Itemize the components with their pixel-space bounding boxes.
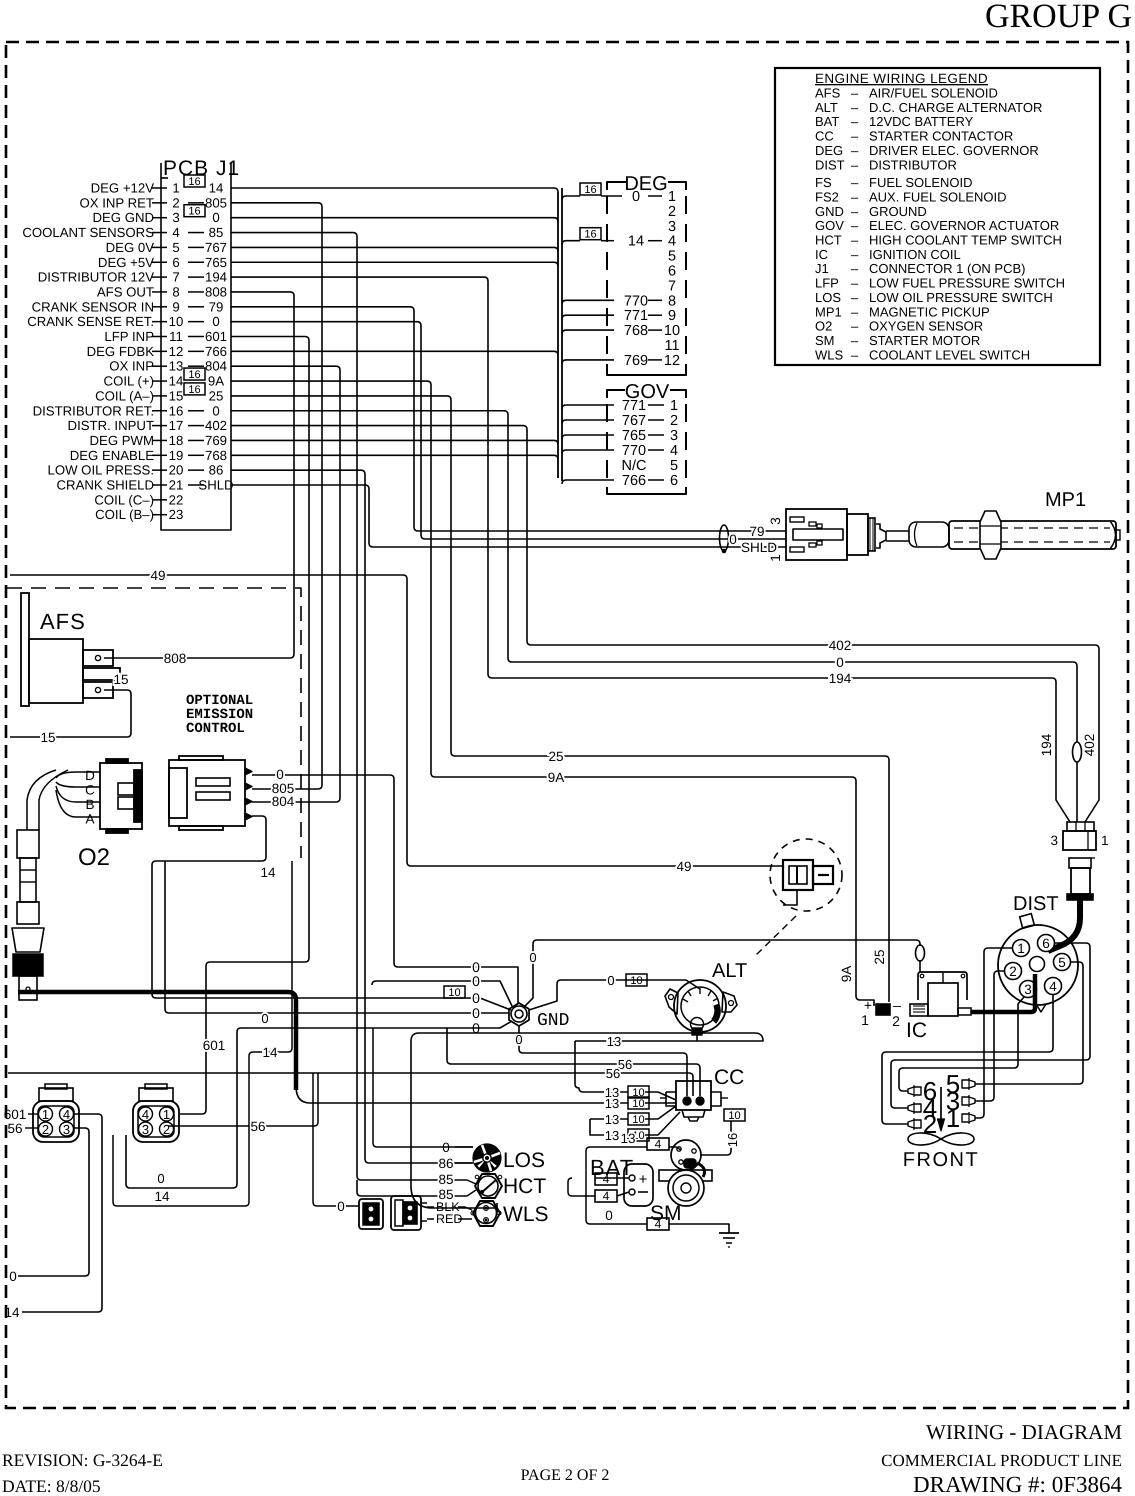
svg-text:0: 0 — [472, 973, 480, 989]
inline connector on 0 wire — [1073, 742, 1082, 762]
optional emission control dashed boundary — [7, 588, 301, 858]
IC left terminal — [910, 1004, 928, 1016]
DIST harness connector top — [1067, 822, 1094, 831]
svg-text:805: 805 — [205, 195, 227, 210]
wire dist pin3 loop — [899, 997, 1024, 1091]
svg-text:COOLANT LEVEL SWITCH: COOLANT LEVEL SWITCH — [869, 347, 1030, 362]
wire 0 J1 pin16 to DIST — [231, 411, 1077, 742]
svg-text:13: 13 — [605, 1128, 619, 1143]
svg-text:OXYGEN SENSOR: OXYGEN SENSOR — [869, 319, 983, 334]
wire trunk to GOV pin 3 — [562, 435, 614, 439]
svg-text:–: – — [851, 157, 859, 172]
wire 25 J1 pin15 to IC — [231, 396, 889, 1002]
svg-text:9A: 9A — [208, 374, 224, 389]
connector pigtail — [783, 890, 797, 905]
IC body — [928, 983, 958, 1016]
svg-text:REVISION: G-3264-E: REVISION: G-3264-E — [2, 1450, 163, 1470]
svg-text:AUX. FUEL SOLENOID: AUX. FUEL SOLENOID — [869, 189, 1007, 204]
svg-text:601: 601 — [205, 329, 227, 344]
svg-text:1: 1 — [1017, 941, 1025, 956]
svg-text:16: 16 — [188, 206, 200, 218]
O2 sensor hex — [12, 928, 44, 952]
svg-text:85: 85 — [209, 225, 224, 240]
legend box — [775, 68, 1100, 365]
svg-text:0: 0 — [529, 950, 536, 965]
svg-text:11: 11 — [169, 329, 183, 344]
svg-text:8: 8 — [668, 293, 676, 309]
svg-text:0: 0 — [836, 655, 844, 670]
wire 56 conn2 pin2 — [168, 1073, 318, 1126]
svg-text:768: 768 — [205, 448, 227, 463]
O2 pin bumps — [245, 768, 252, 775]
svg-text:O2: O2 — [815, 319, 832, 334]
svg-text:771: 771 — [624, 308, 648, 324]
svg-text:4: 4 — [1049, 979, 1057, 994]
svg-text:0: 0 — [632, 189, 640, 205]
MP1 connector details — [790, 517, 804, 522]
svg-text:86: 86 — [438, 1156, 453, 1171]
wire trunk to GOV pin 2 — [562, 420, 614, 424]
battery body — [624, 1164, 653, 1206]
wire J1 pin 1 to trunk — [231, 188, 558, 192]
svg-text:769: 769 — [624, 353, 648, 369]
wire 86 J1 pin20 to LOS — [231, 470, 473, 1163]
svg-text:COIL (+): COIL (+) — [104, 374, 154, 389]
svg-text:13: 13 — [605, 1112, 619, 1127]
svg-text:3: 3 — [172, 210, 179, 225]
wire 0 up from GND to IC — [524, 940, 920, 1007]
distributor terminal 2 — [1004, 963, 1021, 980]
svg-text:769: 769 — [205, 433, 227, 448]
svg-text:56: 56 — [7, 1121, 22, 1136]
svg-text:CC: CC — [815, 129, 834, 144]
svg-text:3: 3 — [668, 219, 676, 235]
svg-text:FS: FS — [815, 175, 832, 190]
svg-text:–: – — [851, 114, 859, 129]
svg-text:GROUND: GROUND — [869, 204, 927, 219]
svg-text:PCB J1: PCB J1 — [163, 157, 240, 180]
svg-text:DIST: DIST — [815, 157, 845, 172]
svg-text:LFP: LFP — [815, 276, 839, 291]
wire bus J1 to DEG/GOV (trunk) — [557, 192, 559, 478]
svg-text:FUEL SOLENOID: FUEL SOLENOID — [869, 175, 973, 190]
svg-text:49: 49 — [676, 859, 691, 874]
svg-text:0: 0 — [337, 1199, 345, 1214]
svg-text:9A: 9A — [548, 770, 565, 785]
distributor tab — [1020, 914, 1035, 929]
wire 13 row4 — [590, 1119, 628, 1135]
plug terminal 5 — [962, 1080, 975, 1088]
svg-text:4: 4 — [655, 1137, 662, 1151]
wire 14 loop conn1 pin4 — [22, 1114, 102, 1312]
svg-text:N/C: N/C — [622, 458, 647, 474]
starter motor mount bar — [659, 1170, 712, 1181]
svg-text:15: 15 — [113, 672, 128, 687]
svg-text:0: 0 — [212, 210, 219, 225]
svg-text:16: 16 — [188, 384, 200, 396]
svg-text:22: 22 — [169, 492, 184, 507]
IC HT lead to DIST — [971, 974, 1035, 1012]
svg-text:0: 0 — [261, 1011, 268, 1026]
IC right output — [958, 1008, 971, 1015]
wire 15 AFS — [10, 690, 131, 737]
O2 cable — [27, 770, 56, 830]
svg-text:DEG: DEG — [624, 173, 667, 195]
svg-text:808: 808 — [164, 651, 187, 666]
svg-text:13: 13 — [620, 1131, 635, 1146]
svg-text:OX INP: OX INP — [109, 359, 154, 374]
O2 sensor tip — [19, 976, 37, 1000]
svg-text:23: 23 — [169, 507, 184, 522]
svg-text:14: 14 — [169, 374, 184, 389]
svg-text:4: 4 — [603, 1189, 610, 1203]
svg-text:SHLD: SHLD — [741, 540, 777, 555]
wire trunk to GOV pin 4 — [562, 450, 614, 454]
svg-text:STARTER CONTACTOR: STARTER CONTACTOR — [869, 129, 1013, 144]
svg-text:AFS: AFS — [40, 609, 86, 634]
wire 16 to solenoid — [700, 1121, 731, 1155]
svg-text:DEG PWM: DEG PWM — [90, 433, 154, 448]
svg-text:5: 5 — [670, 458, 678, 474]
svg-text:9: 9 — [668, 308, 676, 324]
svg-text:10: 10 — [169, 314, 184, 329]
svg-text:16: 16 — [584, 184, 596, 196]
svg-text:WIRING - DIAGRAM: WIRING - DIAGRAM — [926, 1420, 1122, 1444]
svg-text:19: 19 — [169, 448, 184, 463]
svg-text:4: 4 — [670, 443, 678, 459]
svg-text:14: 14 — [209, 180, 224, 195]
wire 0 to GND via 85 branch — [372, 981, 512, 1006]
connector in dashed circle — [783, 860, 813, 890]
wire 0 left to GND (from conn2 area) — [126, 1021, 512, 1188]
svg-text:49: 49 — [150, 568, 165, 583]
svg-text:B: B — [85, 797, 94, 812]
svg-text:86: 86 — [209, 463, 224, 478]
wire 13 to solenoid — [590, 1146, 647, 1148]
svg-text:GND: GND — [815, 204, 844, 219]
svg-text:DEG FDBK: DEG FDBK — [87, 344, 155, 359]
svg-text:18: 18 — [169, 433, 184, 448]
wire trunk to DEG pin 10 — [562, 330, 614, 334]
svg-text:COIL (A–): COIL (A–) — [95, 388, 154, 403]
svg-text:5: 5 — [668, 249, 676, 265]
svg-text:25: 25 — [548, 749, 563, 764]
svg-text:766: 766 — [205, 344, 227, 359]
svg-text:16: 16 — [725, 1133, 740, 1147]
svg-text:–: – — [851, 100, 859, 115]
svg-text:4: 4 — [668, 234, 676, 250]
wire 0 to WLS connector — [313, 1073, 359, 1206]
battery wires + boxes — [595, 1177, 629, 1179]
svg-text:804: 804 — [205, 359, 227, 374]
wire 804 J1 pin13 to O2 — [231, 366, 340, 802]
svg-text:AIR/FUEL SOLENOID: AIR/FUEL SOLENOID — [869, 86, 998, 101]
svg-text:2: 2 — [1009, 964, 1017, 979]
wire trunk to DEG pin 8 — [562, 300, 614, 304]
svg-text:D.C. CHARGE ALTERNATOR: D.C. CHARGE ALTERNATOR — [869, 100, 1042, 115]
distributor center post — [1029, 957, 1044, 972]
svg-text:1: 1 — [42, 1107, 49, 1122]
svg-text:601: 601 — [203, 1038, 226, 1053]
svg-text:765: 765 — [205, 255, 227, 270]
svg-text:7: 7 — [172, 270, 179, 285]
svg-text:804: 804 — [272, 794, 295, 809]
AFS solenoid body — [21, 593, 29, 706]
wire 0 loop conn1 pin3 — [18, 1128, 89, 1276]
wire dist pin4 loop — [882, 995, 1053, 1124]
connector J1 box — [161, 163, 231, 530]
distributor terminal 3 — [1019, 981, 1036, 998]
svg-text:HCT: HCT — [815, 233, 842, 248]
svg-text:–: – — [851, 233, 859, 248]
O2 sensor body — [17, 830, 39, 858]
wire trunk to GOV pin 1 — [562, 405, 614, 409]
svg-text:6: 6 — [172, 255, 179, 270]
MP1 hex nut — [980, 511, 1001, 559]
svg-text:1: 1 — [172, 180, 179, 195]
svg-text:15: 15 — [169, 388, 184, 403]
svg-text:5: 5 — [172, 240, 179, 255]
svg-text:LOW OIL PRESSURE SWITCH: LOW OIL PRESSURE SWITCH — [869, 290, 1053, 305]
wire 9A J1 pin14 to IC — [231, 381, 874, 1006]
wire 0 GND to ALT — [529, 980, 700, 1010]
svg-text:CONNECTOR 1 (ON PCB): CONNECTOR 1 (ON PCB) — [869, 261, 1026, 276]
wire 79 J1 pin9 to MP1 — [231, 307, 786, 531]
svg-text:4: 4 — [63, 1107, 70, 1122]
svg-text:3: 3 — [1024, 982, 1032, 997]
MP1 connector body — [786, 509, 847, 560]
ground symbol — [719, 1232, 739, 1234]
svg-text:–: – — [851, 218, 859, 233]
svg-text:10: 10 — [448, 987, 460, 999]
svg-text:–: – — [851, 189, 859, 204]
svg-text:79: 79 — [209, 299, 224, 314]
svg-text:12: 12 — [664, 353, 680, 369]
svg-text:LFP INP: LFP INP — [104, 329, 154, 344]
DIST cap thick cable — [1048, 900, 1080, 951]
MP1 rod — [886, 531, 909, 541]
svg-text:A: A — [85, 811, 94, 826]
svg-text:0: 0 — [472, 990, 480, 1006]
svg-text:–: – — [851, 247, 859, 262]
plug terminal 3 — [962, 1097, 975, 1105]
svg-text:0: 0 — [212, 314, 219, 329]
svg-text:GND: GND — [537, 1011, 569, 1031]
svg-text:MP1: MP1 — [815, 304, 842, 319]
IC terminal block — [876, 1004, 890, 1015]
wire 13 down to CC row1 — [575, 1041, 628, 1092]
wire 0 gnd branch — [165, 861, 509, 1013]
svg-text:SM: SM — [815, 333, 835, 348]
HCT switch — [475, 1174, 502, 1198]
svg-text:4: 4 — [142, 1107, 149, 1122]
svg-text:767: 767 — [205, 240, 227, 255]
starter solenoid cap — [671, 1140, 701, 1170]
distributor bottom notch — [1036, 1004, 1046, 1012]
svg-text:3: 3 — [142, 1122, 149, 1137]
svg-text:56: 56 — [606, 1066, 620, 1081]
IC mounting bracket — [918, 972, 967, 1000]
svg-text:79: 79 — [749, 524, 764, 539]
MP1 sleeve — [909, 522, 949, 547]
svg-text:STARTER MOTOR: STARTER MOTOR — [869, 333, 980, 348]
wire trunk to GOV pin 6 — [562, 480, 614, 484]
O2 ground thick wire — [18, 992, 296, 1090]
svg-text:13: 13 — [607, 1034, 621, 1049]
svg-text:402: 402 — [829, 638, 852, 653]
svg-text:DRIVER ELEC. GOVERNOR: DRIVER ELEC. GOVERNOR — [869, 143, 1039, 158]
svg-text:194: 194 — [1039, 733, 1054, 756]
wire J1 pin 19 to trunk — [231, 455, 558, 459]
svg-text:HCT: HCT — [503, 1175, 546, 1198]
svg-text:–: – — [851, 204, 859, 219]
svg-text:0: 0 — [515, 1032, 522, 1047]
svg-text:770: 770 — [624, 293, 648, 309]
distributor cap circle — [998, 925, 1078, 1005]
WLS connector pair — [359, 1199, 383, 1229]
svg-text:3: 3 — [63, 1122, 70, 1137]
svg-text:402: 402 — [1082, 734, 1097, 757]
svg-text:765: 765 — [622, 428, 646, 444]
svg-text:GROUP G: GROUP G — [985, 0, 1132, 35]
FRONT arrow — [940, 1087, 942, 1122]
svg-text:COOLANT SENSORS: COOLANT SENSORS — [22, 225, 154, 240]
AFS terminal 1 — [83, 650, 113, 666]
starter motor body — [668, 1170, 704, 1206]
wire 13 row3 — [590, 1118, 628, 1120]
svg-text:25: 25 — [209, 388, 224, 403]
svg-text:+: + — [864, 997, 872, 1013]
wire 14 loop conn2 — [113, 861, 292, 1206]
4 box — [647, 1138, 669, 1150]
wire 805 J1 pin2 to O2 — [231, 203, 322, 789]
wire J1 pin 5 to trunk — [231, 247, 558, 251]
svg-text:SHLD: SHLD — [198, 477, 233, 492]
svg-text:GOV: GOV — [815, 218, 844, 233]
svg-text:21: 21 — [169, 477, 184, 492]
svg-text:–: – — [851, 347, 859, 362]
svg-text:1: 1 — [1101, 833, 1109, 848]
wire J1 pin 3 to trunk — [231, 218, 558, 222]
svg-text:8: 8 — [172, 284, 179, 299]
svg-text:ELEC. GOVERNOR ACTUATOR: ELEC. GOVERNOR ACTUATOR — [869, 218, 1059, 233]
plug terminal 2 — [908, 1120, 921, 1128]
wire 0 from O2 — [252, 775, 518, 1003]
svg-text:15: 15 — [40, 730, 55, 745]
CC bottom — [682, 1110, 705, 1117]
svg-text:CC: CC — [714, 1066, 744, 1089]
svg-text:2: 2 — [42, 1122, 49, 1137]
AFS terminal 2 — [83, 682, 113, 698]
MP1 shield ellipse — [720, 525, 729, 551]
svg-text:COMMERCIAL PRODUCT LINE: COMMERCIAL PRODUCT LINE — [881, 1451, 1122, 1470]
svg-text:–: – — [851, 333, 859, 348]
plug terminal 1 — [962, 1114, 975, 1122]
svg-text:DISTR. INPUT: DISTR. INPUT — [68, 418, 154, 433]
wire J1 pin 18 to trunk — [231, 440, 558, 444]
LOS switch — [473, 1144, 500, 1171]
svg-text:14: 14 — [260, 865, 276, 880]
wire J1 pin 6 to trunk — [231, 262, 558, 266]
O2 harness wires — [56, 772, 100, 778]
wire 0 below GND to CC — [519, 1026, 687, 1096]
svg-text:LOS: LOS — [503, 1149, 545, 1172]
svg-text:0: 0 — [607, 973, 614, 988]
svg-text:1: 1 — [668, 189, 676, 205]
svg-text:CRANK SENSE RET.: CRANK SENSE RET. — [27, 314, 154, 329]
connector (engine harness) 1 — [33, 1101, 79, 1142]
dashed detail circle — [770, 839, 842, 911]
svg-text:MAGNETIC PICKUP: MAGNETIC PICKUP — [869, 304, 990, 319]
svg-text:COIL (C–): COIL (C–) — [94, 492, 154, 507]
svg-text:0: 0 — [729, 532, 737, 547]
wire 808 J1 pin8 to AFS — [104, 292, 294, 658]
svg-text:10: 10 — [728, 1110, 740, 1122]
svg-text:770: 770 — [622, 443, 646, 459]
svg-text:ENGINE WIRING LEGEND: ENGINE WIRING LEGEND — [815, 71, 988, 86]
wire 601 J1 pin11 to connector — [180, 336, 309, 1114]
wire dist pin2 to plug 3 — [975, 971, 1004, 1101]
svg-text:2: 2 — [668, 204, 676, 220]
svg-text:DEG GND: DEG GND — [92, 210, 154, 225]
svg-text:DEG ENABLE: DEG ENABLE — [70, 448, 154, 463]
svg-text:5: 5 — [1058, 955, 1066, 970]
svg-text:PAGE 2 OF 2: PAGE 2 OF 2 — [521, 1467, 610, 1484]
svg-text:194: 194 — [829, 671, 852, 686]
svg-text:4: 4 — [172, 225, 179, 240]
svg-text:17: 17 — [169, 418, 184, 433]
wire dist pin6 loop — [891, 943, 1090, 1108]
distributor terminal 6 — [1037, 935, 1054, 952]
svg-text:16: 16 — [584, 229, 596, 241]
svg-text:OX INP RET: OX INP RET — [79, 195, 154, 210]
distributor terminal 4 — [1044, 978, 1061, 995]
plug terminal 4 — [908, 1104, 921, 1112]
distributor terminal 1 — [1012, 940, 1029, 957]
svg-text:25: 25 — [872, 949, 887, 964]
left bracket wire — [586, 1147, 647, 1224]
O2 connector left half — [100, 763, 142, 829]
svg-text:0: 0 — [9, 1269, 17, 1284]
svg-text:13: 13 — [605, 1096, 619, 1111]
svg-text:–: – — [851, 304, 859, 319]
svg-text:MP1: MP1 — [1045, 489, 1086, 511]
wire 0 J1 pin10 to MP1 — [231, 322, 786, 539]
svg-text:767: 767 — [622, 413, 646, 429]
svg-text:DISTRIBUTOR 12V: DISTRIBUTOR 12V — [38, 270, 154, 285]
connector GOV box — [607, 390, 625, 398]
svg-text:–: – — [851, 276, 859, 291]
svg-text:HIGH COOLANT TEMP SWITCH: HIGH COOLANT TEMP SWITCH — [869, 233, 1062, 248]
svg-text:ALT: ALT — [815, 100, 838, 115]
svg-text:601: 601 — [4, 1107, 27, 1122]
wire trunk to DEG pin 9 — [562, 315, 614, 319]
svg-text:DATE: 8/8/05: DATE: 8/8/05 — [2, 1476, 101, 1496]
connector DEG box — [607, 182, 627, 190]
WLS switch — [473, 1201, 500, 1226]
svg-text:16: 16 — [188, 176, 200, 188]
svg-text:20: 20 — [169, 463, 184, 478]
wire dist pin5 to plug 5 — [975, 962, 1083, 1084]
svg-text:10: 10 — [632, 1098, 644, 1110]
svg-text:–: – — [851, 86, 859, 101]
svg-text:56: 56 — [250, 1119, 265, 1134]
wire 85 branch to HCT lower — [357, 1180, 455, 1196]
svg-text:808: 808 — [205, 284, 227, 299]
svg-text:3: 3 — [670, 428, 678, 444]
svg-text:4: 4 — [655, 1217, 662, 1231]
wire dist pin1 to plug 1 — [975, 948, 1012, 1118]
